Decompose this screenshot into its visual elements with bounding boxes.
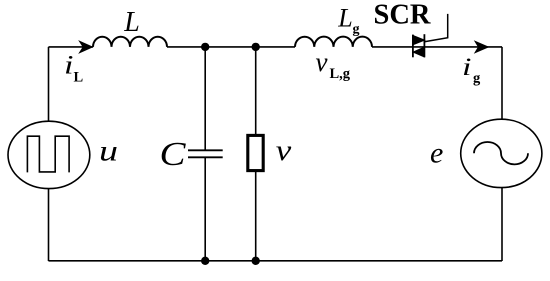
svg-text:L: L <box>74 70 84 86</box>
inductor L <box>93 37 167 47</box>
svg-text:L: L <box>337 4 352 33</box>
wire bottom horizontal <box>49 260 503 262</box>
svg-text:L,g: L,g <box>330 66 351 82</box>
SCR gate lead <box>424 14 447 42</box>
square wave symbol inside source u <box>27 136 69 172</box>
arrow for current iL <box>78 40 93 54</box>
node dot bottom-right (load branch) <box>252 257 260 265</box>
svg-text:v: v <box>316 47 328 77</box>
SCR right bar <box>423 34 425 57</box>
svg-text:e: e <box>430 137 443 170</box>
node dot bottom-left (capacitor branch) <box>201 257 209 265</box>
node dot top-right (load branch) <box>252 43 260 51</box>
wire capacitor branch lower <box>204 157 206 261</box>
sine wave inside source e <box>474 142 528 164</box>
svg-text:SCR: SCR <box>374 0 431 31</box>
svg-text:C: C <box>160 136 186 173</box>
svg-text:g: g <box>473 70 481 86</box>
wire right vertical upper (top wire to e source) <box>501 47 503 119</box>
svg-text:v: v <box>276 134 292 167</box>
wire top-middle between L and Lg <box>167 46 295 48</box>
SCR upper triangle (points right) <box>414 36 425 44</box>
wire load branch lower <box>255 171 257 261</box>
SCR lower triangle (points left) <box>414 48 424 57</box>
svg-text:u: u <box>99 135 118 168</box>
voltage source u circle <box>8 121 90 188</box>
wire capacitor branch upper <box>204 47 206 150</box>
wire from Lg through SCR to top-right corner <box>372 46 502 48</box>
node dot top-left (capacitor branch) <box>201 43 209 51</box>
svg-text:L: L <box>123 7 140 38</box>
wire left vertical upper (u source to top wire) <box>48 47 50 121</box>
wire load branch upper <box>255 47 257 135</box>
capacitor C plates <box>188 150 223 157</box>
load box v <box>248 135 263 170</box>
SCR left bar (cathode of lower diode) <box>412 35 414 58</box>
wire left vertical lower (u source to bottom wire) <box>48 189 50 262</box>
svg-text:g: g <box>353 22 360 37</box>
svg-text:i: i <box>462 54 472 81</box>
wire right vertical lower (e source to bottom wire) <box>501 188 503 261</box>
inductor Lg <box>295 37 372 47</box>
svg-text:i: i <box>64 50 74 79</box>
wire top-left horizontal from source u to inductor L <box>49 46 94 48</box>
arrow for current ig <box>474 40 490 54</box>
AC source e circle <box>461 119 542 187</box>
